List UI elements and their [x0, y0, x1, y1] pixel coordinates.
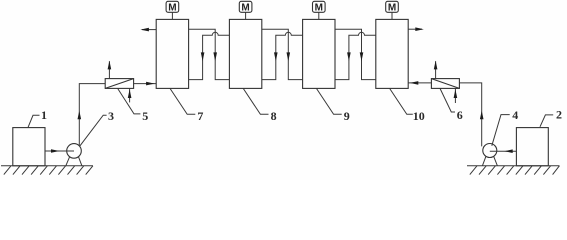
- pipe exchanger5 to column7: [134, 83, 157, 85]
- arrow down on interconnect 9-10 left: [347, 52, 351, 61]
- svg-text:10: 10: [413, 109, 425, 123]
- ground right: [467, 166, 560, 175]
- arrow up on riser3: [78, 111, 82, 120]
- arrow right into pump3: [51, 149, 60, 153]
- motor M2 box: [239, 1, 252, 12]
- motor M2 shaft: [245, 12, 247, 19]
- column 7 raffinate outlet arrow left: [142, 29, 156, 31]
- interconnect col10 top to col9 bottom with hop: [335, 32, 376, 79]
- label 2 leader: [540, 115, 553, 127]
- svg-text:5: 5: [142, 109, 148, 123]
- heat exchanger 5: [105, 79, 133, 89]
- motor M4 box: [386, 1, 399, 12]
- pipe tank2 to pump4: [490, 150, 517, 152]
- svg-text:M: M: [388, 2, 396, 13]
- svg-text:6: 6: [457, 108, 463, 122]
- motor M4 shaft: [391, 12, 393, 19]
- label 3 leader: [80, 115, 107, 146]
- motor M1 box: [166, 1, 179, 12]
- label 8 leader: [243, 88, 268, 114]
- riser pump3 to exchanger5: [79, 84, 105, 146]
- arrow down on interconnect 8-9 right: [287, 52, 291, 61]
- motor M1 shaft: [171, 12, 173, 19]
- interconnect col8 top to col7 bottom with hop: [189, 32, 230, 79]
- exchanger 5 vent arrow up: [108, 61, 110, 78]
- interconnect col9 top to col8 bottom with hop: [262, 32, 303, 79]
- exchanger 6 bottom inlet arrow up: [454, 88, 456, 103]
- arrow down on interconnect 7-8 right: [213, 52, 217, 61]
- exchanger 6 vent arrow up: [435, 61, 437, 78]
- ground left: [1, 166, 93, 175]
- svg-text:M: M: [241, 2, 249, 13]
- interconnect col8 top to col9 bottom: [262, 29, 303, 79]
- svg-text:7: 7: [197, 109, 203, 123]
- exchanger 5 bottom inlet arrow up: [129, 88, 131, 102]
- pipe exchanger6 to column10: [408, 82, 431, 84]
- label 6 leader: [440, 88, 455, 112]
- exchanger 6 diagonal: [431, 79, 459, 89]
- label 4 leader: [492, 115, 510, 146]
- svg-text:8: 8: [271, 109, 277, 123]
- arrow down on interconnect 8-9 left: [274, 52, 278, 61]
- pipe exchanger6 to pump4 riser: [459, 83, 481, 146]
- arrow right into column7: [146, 82, 155, 86]
- label 1 leader: [28, 115, 40, 127]
- svg-text:M: M: [315, 2, 323, 13]
- pump 4: [483, 144, 497, 158]
- arrow down on interconnect 9-10 right: [360, 52, 364, 61]
- svg-text:9: 9: [344, 109, 350, 123]
- arrow down on interconnect 7-8 left: [201, 52, 205, 61]
- tank 1: [13, 128, 45, 166]
- arrow left into pump4: [504, 149, 513, 153]
- interconnect col7 top to col8 bottom: [189, 29, 230, 79]
- arrow left into column10: [410, 81, 419, 85]
- pipe tank1 to pump3: [45, 150, 74, 152]
- pump 3: [67, 144, 82, 159]
- label 9 leader: [316, 88, 341, 114]
- svg-text:M: M: [168, 2, 176, 13]
- exchanger 5 diagonal: [105, 79, 133, 89]
- svg-text:4: 4: [512, 108, 518, 122]
- column 9: [303, 19, 335, 88]
- motor M3 shaft: [318, 12, 320, 19]
- pump 3 legs: [66, 157, 82, 166]
- column 8: [229, 19, 261, 88]
- svg-text:2: 2: [556, 108, 562, 122]
- pump 4 legs: [482, 157, 497, 166]
- column 10 extract outlet arrow right: [408, 28, 422, 30]
- label 7 leader: [170, 88, 195, 114]
- svg-text:3: 3: [108, 109, 114, 123]
- label 5 leader: [118, 88, 141, 114]
- label 10 leader: [390, 88, 413, 114]
- arrow up on riser4: [480, 111, 484, 120]
- tank 2: [516, 128, 548, 166]
- column 10: [376, 19, 408, 88]
- interconnect col9 top to col10 bottom: [335, 29, 376, 79]
- svg-text:1: 1: [41, 108, 47, 122]
- heat exchanger 6: [431, 79, 459, 89]
- column 7: [156, 19, 188, 88]
- motor M3 box: [313, 1, 326, 12]
